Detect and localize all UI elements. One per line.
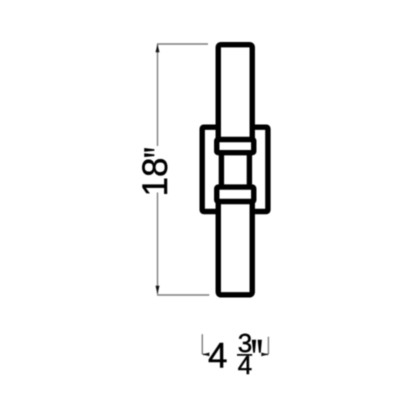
height dimension line upper segment: [157, 44, 159, 146]
width dimension left extension line: [201, 334, 203, 354]
upper glass tube: [218, 45, 252, 153]
width dimension right extension line: [267, 337, 269, 355]
top band: [217, 140, 254, 153]
width dimension right arrow: [261, 353, 268, 357]
width dimension left arrow: [203, 353, 210, 357]
svg-text:18: 18: [136, 158, 175, 197]
height dimension arrow up: [156, 44, 160, 52]
center column left edge: [219, 148, 224, 192]
height dimension line lower segment: [157, 193, 159, 295]
height dimension extension line bottom: [157, 294, 209, 296]
width label inch mark: [252, 340, 256, 353]
lower glass tube: [218, 187, 252, 295]
width dimension left arrow line: [203, 353, 209, 355]
bottom band: [217, 187, 254, 201]
width dimension right arrow line: [262, 353, 268, 355]
svg-text:4: 4: [208, 337, 227, 376]
center column right edge: [247, 148, 252, 192]
width label fraction bar: [237, 354, 252, 356]
height label inch mark: [144, 148, 154, 152]
svg-text:4: 4: [238, 350, 252, 380]
height dimension extension line top: [157, 43, 208, 45]
backplate: [202, 127, 268, 211]
height dimension arrow down: [156, 286, 160, 294]
